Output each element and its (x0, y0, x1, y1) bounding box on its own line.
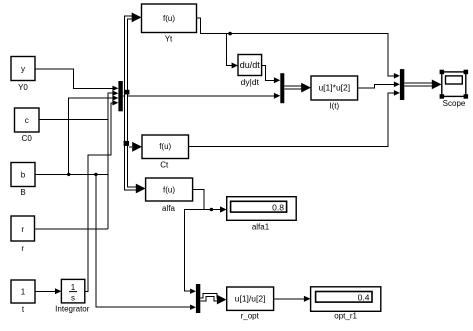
wire alfa branch left down to mux M3 input1 (185, 210, 204, 292)
svg-text:du/dt: du/dt (240, 60, 261, 70)
svg-text:C0: C0 (22, 134, 33, 143)
wire thick mux M1 branch down to Ct and alfa (126, 92, 137, 189)
svg-text:opt_r1: opt_r1 (334, 311, 357, 320)
wire r_opt output to display opt_r1 (274, 298, 305, 300)
svg-text:r_opt: r_opt (241, 312, 260, 321)
wire integrator output riser to mux M1 input4 (85, 103, 113, 291)
wire Ct output to mux M4 input3 (189, 93, 394, 146)
fcn block Ct (142, 135, 189, 159)
svg-text:f(u): f(u) (163, 14, 175, 23)
derivative block du/dt (238, 55, 262, 76)
svg-text:s: s (71, 294, 75, 303)
node junction alfa branch (210, 208, 213, 211)
arrowhead into Ct (thick) (132, 142, 142, 152)
mux M3 input arrows (190, 289, 196, 294)
arrowhead into I(t) (thick) (301, 83, 311, 93)
svg-text:1: 1 (71, 283, 76, 292)
wire thick mux M4 output to scope (404, 83, 432, 87)
mux M1 input arrows (112, 86, 118, 91)
svg-text:Integrator: Integrator (55, 305, 90, 314)
wire b output (35, 173, 108, 175)
wire constant 1 to integrator (35, 290, 56, 292)
svg-text:r: r (21, 225, 24, 234)
svg-text:u[1]/u[2]: u[1]/u[2] (235, 293, 266, 303)
node junction Yt branch (228, 32, 232, 36)
wire I(t) output to mux M4 input2 (358, 84, 394, 88)
constant block y (11, 57, 35, 81)
constant block b (11, 163, 35, 187)
svg-text:f(u): f(u) (159, 142, 171, 151)
wire b riser up to mux M1 input3 (69, 98, 113, 174)
constant block r (11, 216, 35, 241)
svg-text:Scope: Scope (443, 99, 466, 108)
svg-text:B: B (20, 188, 25, 197)
display block opt_r1 (311, 287, 381, 312)
arrowhead into display opt_r1 (304, 296, 311, 302)
arrowhead into r_opt (thick) (217, 295, 227, 305)
wire thick mux M3 output staircase to r_opt (200, 295, 217, 300)
mux M4 (400, 69, 404, 100)
svg-text:c: c (25, 116, 29, 125)
mux M2 input arrows (274, 77, 280, 83)
svg-text:Ct: Ct (160, 160, 169, 169)
wire Yt branch down to derivative (226, 34, 232, 66)
svg-text:b: b (21, 171, 26, 180)
mux M2 (280, 73, 284, 103)
wire riser c/r vertical (108, 93, 112, 229)
svg-text:f(u): f(u) (163, 186, 175, 195)
fcn block alfa (146, 178, 193, 201)
svg-text:I(t): I(t) (329, 101, 339, 110)
integrator block U1 (61, 279, 84, 303)
node junction b-down (94, 173, 97, 176)
arrowhead into derivative (232, 63, 238, 69)
wire r to riser (35, 228, 108, 230)
fcn block r_opt (227, 287, 274, 310)
wire alfa output down (193, 190, 204, 210)
fcn block Yt (142, 4, 197, 33)
display block alfa1 (227, 197, 297, 221)
wire thick mux M2 output to I(t) (284, 86, 301, 90)
wire mux M1 output to mux M2 input2 (123, 95, 274, 97)
wire c C0 to vertical riser (39, 119, 108, 121)
fcn block I(t) (311, 76, 358, 100)
wire b branch down to mux M3 input2 (96, 174, 191, 307)
svg-text:alfa: alfa (162, 204, 175, 213)
wire y Y0 to mux M1 input1 (35, 69, 112, 89)
svg-text:r: r (21, 244, 24, 253)
svg-text:0.8: 0.8 (272, 202, 284, 212)
wire Yt output to mux M4 input1 (197, 18, 394, 76)
svg-text:y: y (21, 65, 25, 74)
scope block (442, 72, 466, 97)
svg-text:0.4: 0.4 (358, 292, 370, 302)
wire derivative output to mux M2 input1 (262, 66, 274, 81)
arrowhead into Yt (thick) (132, 13, 142, 23)
arrowhead into alfa (thick) (136, 184, 146, 194)
wire alfa branch right to display alfa1 (204, 209, 221, 211)
mux M1 (118, 81, 122, 111)
svg-text:u[1]*u[2]: u[1]*u[2] (318, 83, 350, 93)
svg-text:1: 1 (21, 288, 26, 297)
svg-text:Yt: Yt (165, 34, 173, 43)
svg-text:Y0: Y0 (18, 83, 28, 92)
node junction b-up (67, 173, 70, 176)
wire Ct branch stub (129, 146, 132, 148)
constant block 1 (11, 280, 35, 303)
node junction square at mux M1 output (124, 90, 129, 95)
scope selection handles (440, 70, 445, 75)
constant block c (15, 108, 40, 132)
arrowhead into integrator (55, 288, 61, 294)
arrowhead into scope (thick) (432, 80, 442, 90)
mux M3 (196, 284, 200, 313)
wire thick mux M1 branch up to Yt (126, 18, 132, 95)
svg-text:dy|dt: dy|dt (241, 77, 260, 87)
node junction square Ct branch (124, 141, 129, 146)
svg-text:alfa1: alfa1 (252, 223, 270, 232)
mux M4 input arrows (394, 73, 400, 79)
arrowhead into display alfa1 (220, 206, 227, 212)
